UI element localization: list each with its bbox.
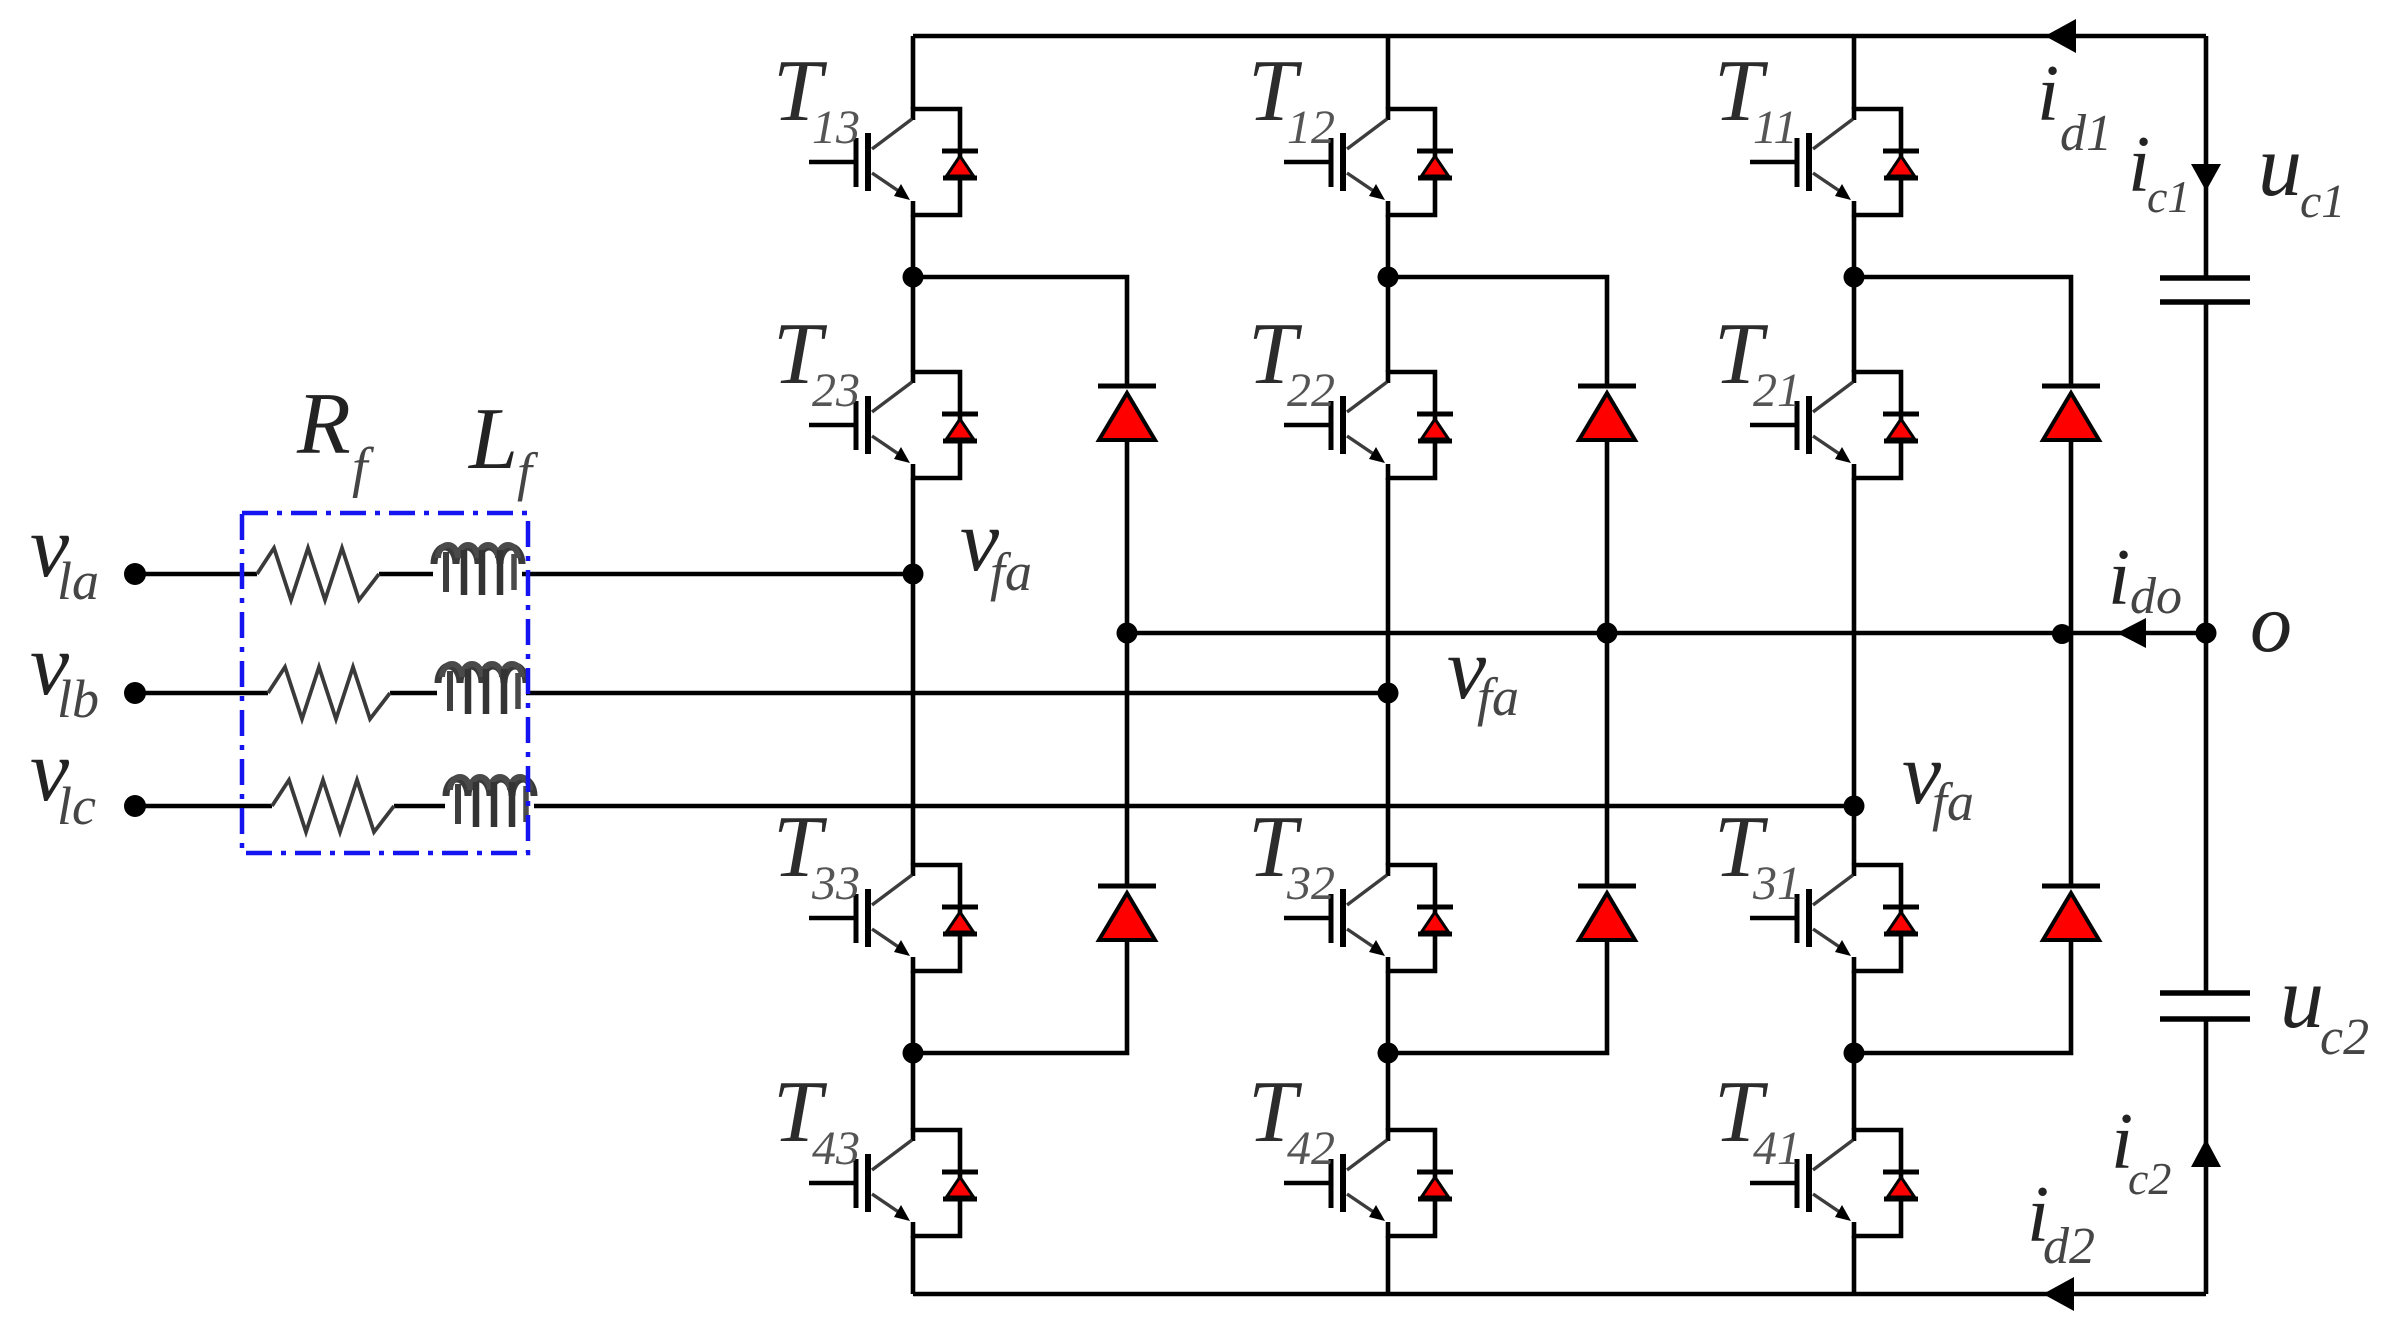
label T22 (1248, 306, 1335, 417)
label i_d2 (2027, 1171, 2095, 1275)
inductor Lf phase a (434, 545, 522, 595)
diode D1a clamp top (1098, 386, 1156, 440)
wire leg c vertical segments (1852, 36, 1857, 1294)
node terminal v_lb (124, 682, 146, 704)
node junction2 leg c (1844, 1043, 1865, 1064)
svg-text:R: R (296, 376, 351, 473)
svg-text:c2: c2 (2128, 1153, 2171, 1204)
node o-rail clamp b (1597, 623, 1618, 644)
svg-text:22: 22 (1287, 364, 1335, 417)
wire leg b vertical segments (1386, 36, 1391, 1294)
node tap phase c (1844, 796, 1865, 817)
node o (2196, 623, 2217, 644)
label i_c2 (2111, 1098, 2171, 1204)
svg-text:L: L (467, 391, 518, 488)
node junction1 leg a (903, 267, 924, 288)
inductor Lf phase c (446, 777, 534, 827)
transistor T42 (1284, 1128, 1453, 1238)
node junction1 leg b (1378, 267, 1399, 288)
wire right DC bus upper (2204, 36, 2209, 278)
svg-text:41: 41 (1753, 1122, 1801, 1175)
transistor T32 (1284, 863, 1453, 973)
label T42 (1248, 1064, 1335, 1175)
svg-text:fa: fa (990, 542, 1032, 602)
svg-text:21: 21 (1753, 364, 1801, 417)
transistor T31 (1750, 863, 1919, 973)
resistor Rf phase a (257, 548, 379, 600)
diode D1b clamp top (1578, 386, 1636, 440)
svg-text:fa: fa (1932, 772, 1974, 832)
label T12 (1248, 43, 1335, 154)
label v_fa phase c (1902, 726, 1974, 832)
label T11 (1714, 43, 1797, 154)
label T32 (1248, 799, 1335, 910)
label u_c2 (2280, 950, 2369, 1066)
svg-text:i: i (2108, 534, 2130, 622)
arrow i_d2 on bottom bus (2043, 1277, 2074, 1311)
label i_c1 (2128, 121, 2190, 222)
label Lf (467, 391, 539, 502)
transistor T22 (1284, 370, 1453, 480)
wire phase a (135, 572, 913, 577)
label i_do (2108, 534, 2182, 625)
label Rf (296, 376, 375, 499)
capacitor C2 (2160, 993, 2250, 1019)
svg-text:43: 43 (812, 1122, 860, 1175)
inductor Lf phase b (438, 664, 526, 714)
arrow i_d1 on top bus (2045, 19, 2076, 53)
node o-rail clamp c (2052, 624, 2072, 644)
wire phase b (135, 691, 1388, 696)
svg-text:42: 42 (1287, 1122, 1335, 1175)
label T31 (1714, 799, 1801, 910)
svg-text:i: i (2037, 50, 2059, 138)
svg-text:31: 31 (1752, 857, 1801, 910)
capacitor C1 (2160, 278, 2250, 302)
node terminal v_lc (124, 795, 146, 817)
wire bottom DC bus (913, 1292, 2206, 1297)
wire clamp branch a (913, 277, 1127, 1053)
wire leg a vertical segments (911, 36, 916, 1294)
node tap phase b (1378, 683, 1399, 704)
transistor T43 (809, 1128, 978, 1238)
diode D2a clamp bottom (1098, 886, 1156, 940)
arrow i_c2 (2191, 1139, 2221, 1167)
svg-text:o: o (2250, 577, 2292, 670)
wire phase c (135, 804, 1854, 809)
svg-text:lc: lc (57, 776, 96, 836)
label T21 (1714, 306, 1801, 417)
svg-text:13: 13 (812, 101, 860, 154)
svg-text:12: 12 (1287, 101, 1335, 154)
svg-text:11: 11 (1753, 101, 1797, 154)
transistor T12 (1284, 107, 1453, 217)
label u_c1 (2258, 118, 2345, 228)
wire top DC bus (913, 34, 2206, 39)
label i_d1 (2037, 50, 2112, 162)
wire right DC bus lower (2204, 1019, 2209, 1294)
label T33 (773, 799, 860, 910)
diode D1c clamp top (2042, 386, 2100, 440)
transistor T21 (1750, 370, 1919, 480)
arrow i_c1 (2191, 164, 2221, 191)
node tap phase a (903, 564, 924, 585)
transistor T11 (1750, 107, 1919, 217)
label T23 (773, 306, 860, 417)
label v_fa phase a (960, 493, 1032, 602)
node o-rail clamp a (1117, 623, 1138, 644)
svg-text:lb: lb (57, 669, 99, 729)
label T13 (773, 43, 860, 154)
arrow i_do on o rail (2117, 618, 2146, 648)
svg-text:la: la (57, 551, 99, 611)
transistor T33 (809, 863, 978, 973)
svg-text:c1: c1 (2147, 171, 2190, 222)
svg-text:c2: c2 (2320, 1009, 2369, 1066)
label v_la (30, 499, 99, 611)
svg-text:fa: fa (1477, 667, 1519, 727)
svg-text:d2: d2 (2043, 1218, 2095, 1275)
svg-text:33: 33 (811, 857, 860, 910)
label v_lc (30, 723, 96, 836)
wire clamp branch c (1854, 277, 2071, 1053)
svg-text:23: 23 (812, 364, 860, 417)
label v_fa phase b (1447, 621, 1519, 727)
node junction2 leg a (903, 1043, 924, 1064)
label v_lb (30, 617, 99, 729)
transistor T41 (1750, 1128, 1919, 1238)
label T43 (773, 1064, 860, 1175)
svg-text:do: do (2130, 568, 2182, 625)
resistor Rf phase b (268, 667, 390, 719)
diode D2c clamp bottom (2042, 886, 2100, 940)
node terminal v_la (124, 563, 146, 585)
svg-text:u: u (2280, 950, 2324, 1047)
wire neutral o rail (1127, 631, 2206, 636)
resistor Rf phase c (272, 780, 394, 832)
filter box dash-dot (242, 513, 528, 853)
node junction1 leg c (1844, 267, 1865, 288)
node junction2 leg b (1378, 1043, 1399, 1064)
svg-text:32: 32 (1286, 857, 1335, 910)
diode D2b clamp bottom (1578, 886, 1636, 940)
wire right DC bus middle (2204, 302, 2209, 993)
transistor T13 (809, 107, 978, 217)
transistor T23 (809, 370, 978, 480)
svg-text:c1: c1 (2300, 175, 2345, 228)
svg-text:u: u (2258, 118, 2302, 215)
label T41 (1714, 1064, 1801, 1175)
wire clamp branch b (1388, 277, 1607, 1053)
svg-text:d1: d1 (2060, 105, 2112, 162)
